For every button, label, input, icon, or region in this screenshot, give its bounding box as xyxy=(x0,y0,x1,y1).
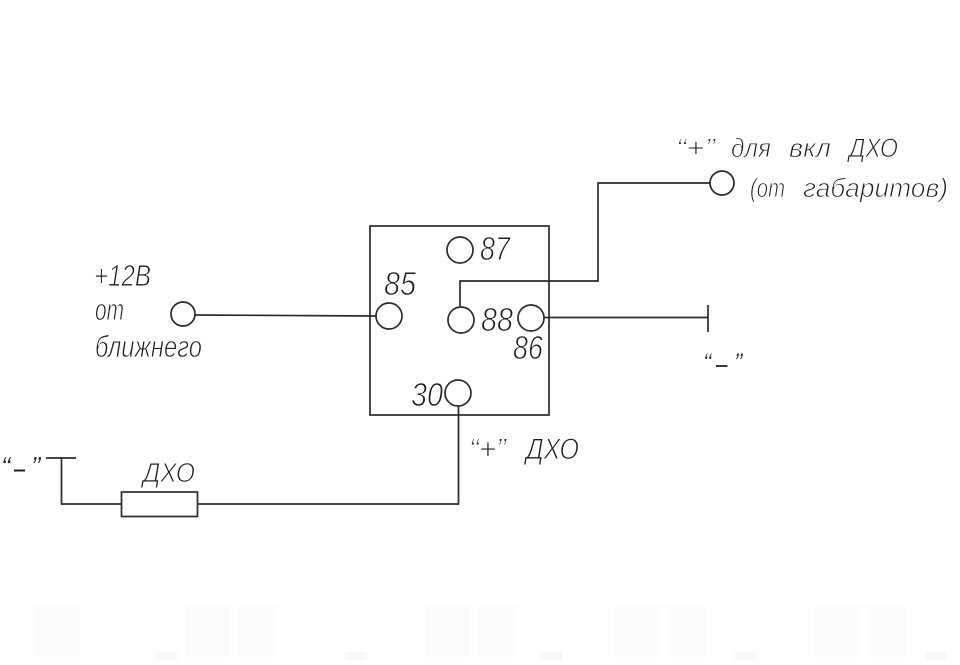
wire pin 30 down and left to resistor xyxy=(198,406,459,504)
pin 30 xyxy=(445,380,471,406)
minus terminal bar right xyxy=(707,305,709,332)
svg-text:”: ” xyxy=(734,349,744,377)
svg-text:ближнего: ближнего xyxy=(95,329,202,364)
svg-text:для: для xyxy=(731,133,771,163)
label "_" left minus: dash xyxy=(14,470,25,472)
svg-text:“: “ xyxy=(703,349,713,377)
svg-text:вкл: вкл xyxy=(789,133,831,163)
svg-text:“+”: “+” xyxy=(676,133,716,163)
wire +12V terminal to pin 85 xyxy=(195,315,376,316)
svg-text:87: 87 xyxy=(480,230,511,267)
svg-text:30: 30 xyxy=(411,376,444,413)
terminal +12V low beam xyxy=(171,302,195,326)
resistor DRL load xyxy=(122,492,198,517)
pin 87 xyxy=(447,237,473,263)
svg-text:86: 86 xyxy=(513,329,544,366)
svg-text:(от: (от xyxy=(750,173,785,203)
svg-text:от: от xyxy=(95,292,124,327)
svg-text:ДХО: ДХО xyxy=(523,433,579,466)
wire pin 88 to DRL-enable terminal xyxy=(460,183,710,306)
minus terminal bar left xyxy=(46,457,76,459)
pin 88 xyxy=(448,307,474,333)
svg-text:88: 88 xyxy=(481,301,514,338)
svg-text:габаритов): габаритов) xyxy=(803,173,948,203)
svg-text:85: 85 xyxy=(384,265,417,302)
svg-text:“: “ xyxy=(1,451,12,482)
svg-text:“+”: “+” xyxy=(469,433,508,466)
label "_" right minus: dash xyxy=(716,365,728,367)
svg-text:+12В: +12В xyxy=(94,258,151,293)
terminal "+" for DRL enable xyxy=(710,171,734,195)
svg-text:ДХО: ДХО xyxy=(140,457,195,488)
wire resistor to minus terminal left xyxy=(62,458,122,504)
wire pin 86 to minus terminal xyxy=(544,317,708,319)
relay K1 body xyxy=(370,226,549,415)
svg-text:ДХО: ДХО xyxy=(846,133,898,163)
svg-text:”: ” xyxy=(31,451,42,482)
faint bottom watermark strip xyxy=(35,605,947,660)
pin 86 xyxy=(518,305,544,331)
pin 85 xyxy=(376,303,402,329)
